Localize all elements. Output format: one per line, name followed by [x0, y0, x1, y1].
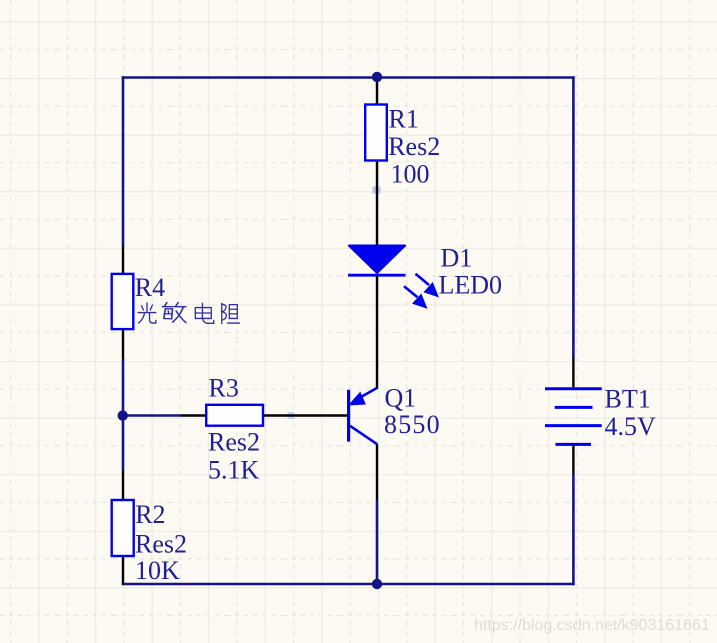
wire stub left of Q1 base [288, 412, 295, 419]
svg-text:Res2: Res2 [208, 428, 260, 457]
resistor R3 [181, 405, 306, 426]
svg-text:Q1: Q1 [385, 383, 417, 412]
svg-text:8550: 8550 [384, 410, 441, 439]
svg-text:R4: R4 [135, 273, 165, 302]
wire left rail upper [122, 76, 125, 245]
transistor Q1 [306, 388, 377, 500]
wire right rail upper [572, 76, 575, 357]
svg-text:R1: R1 [389, 105, 419, 134]
svg-text:R2: R2 [135, 500, 165, 529]
svg-text:Res2: Res2 [135, 530, 187, 559]
resistor R1 [365, 78, 387, 204]
char zu [222, 303, 240, 323]
junction top node [372, 72, 382, 82]
svg-text:Res2: Res2 [388, 132, 440, 161]
R4 value label Chinese guangmin dianzu (photoresistor) [138, 303, 239, 324]
junction left node [118, 410, 128, 420]
wire left rail middle [122, 359, 125, 470]
D1 emission arrow 2 [404, 286, 426, 307]
svg-text:5.1K: 5.1K [208, 456, 260, 485]
wire base horizontal [123, 414, 181, 417]
D1 emission arrow 1 [416, 274, 438, 296]
wire stub below R1 [373, 187, 381, 194]
char dian [195, 303, 213, 323]
svg-text:10K: 10K [135, 556, 180, 585]
svg-text:BT1: BT1 [605, 385, 651, 414]
wire top rail [122, 76, 575, 79]
battery BT1 [545, 357, 602, 474]
wire right rail lower [572, 474, 575, 585]
char guang [138, 303, 156, 323]
svg-text:R3: R3 [209, 374, 239, 403]
junction bottom node [372, 579, 382, 589]
wire collector lower [376, 500, 379, 585]
resistor R4 photoresistor [112, 245, 134, 359]
svg-text:100: 100 [391, 160, 430, 189]
char min [162, 303, 186, 323]
resistor R2 [112, 470, 134, 585]
svg-text:4.5V: 4.5V [605, 412, 657, 441]
wire bottom rail [122, 583, 575, 586]
svg-text:https://blog.csdn.net/k9031616: https://blog.csdn.net/k903161661 [474, 617, 710, 634]
svg-text:D1: D1 [441, 244, 473, 273]
svg-text:LED0: LED0 [439, 271, 503, 300]
LED D1 [348, 203, 406, 389]
